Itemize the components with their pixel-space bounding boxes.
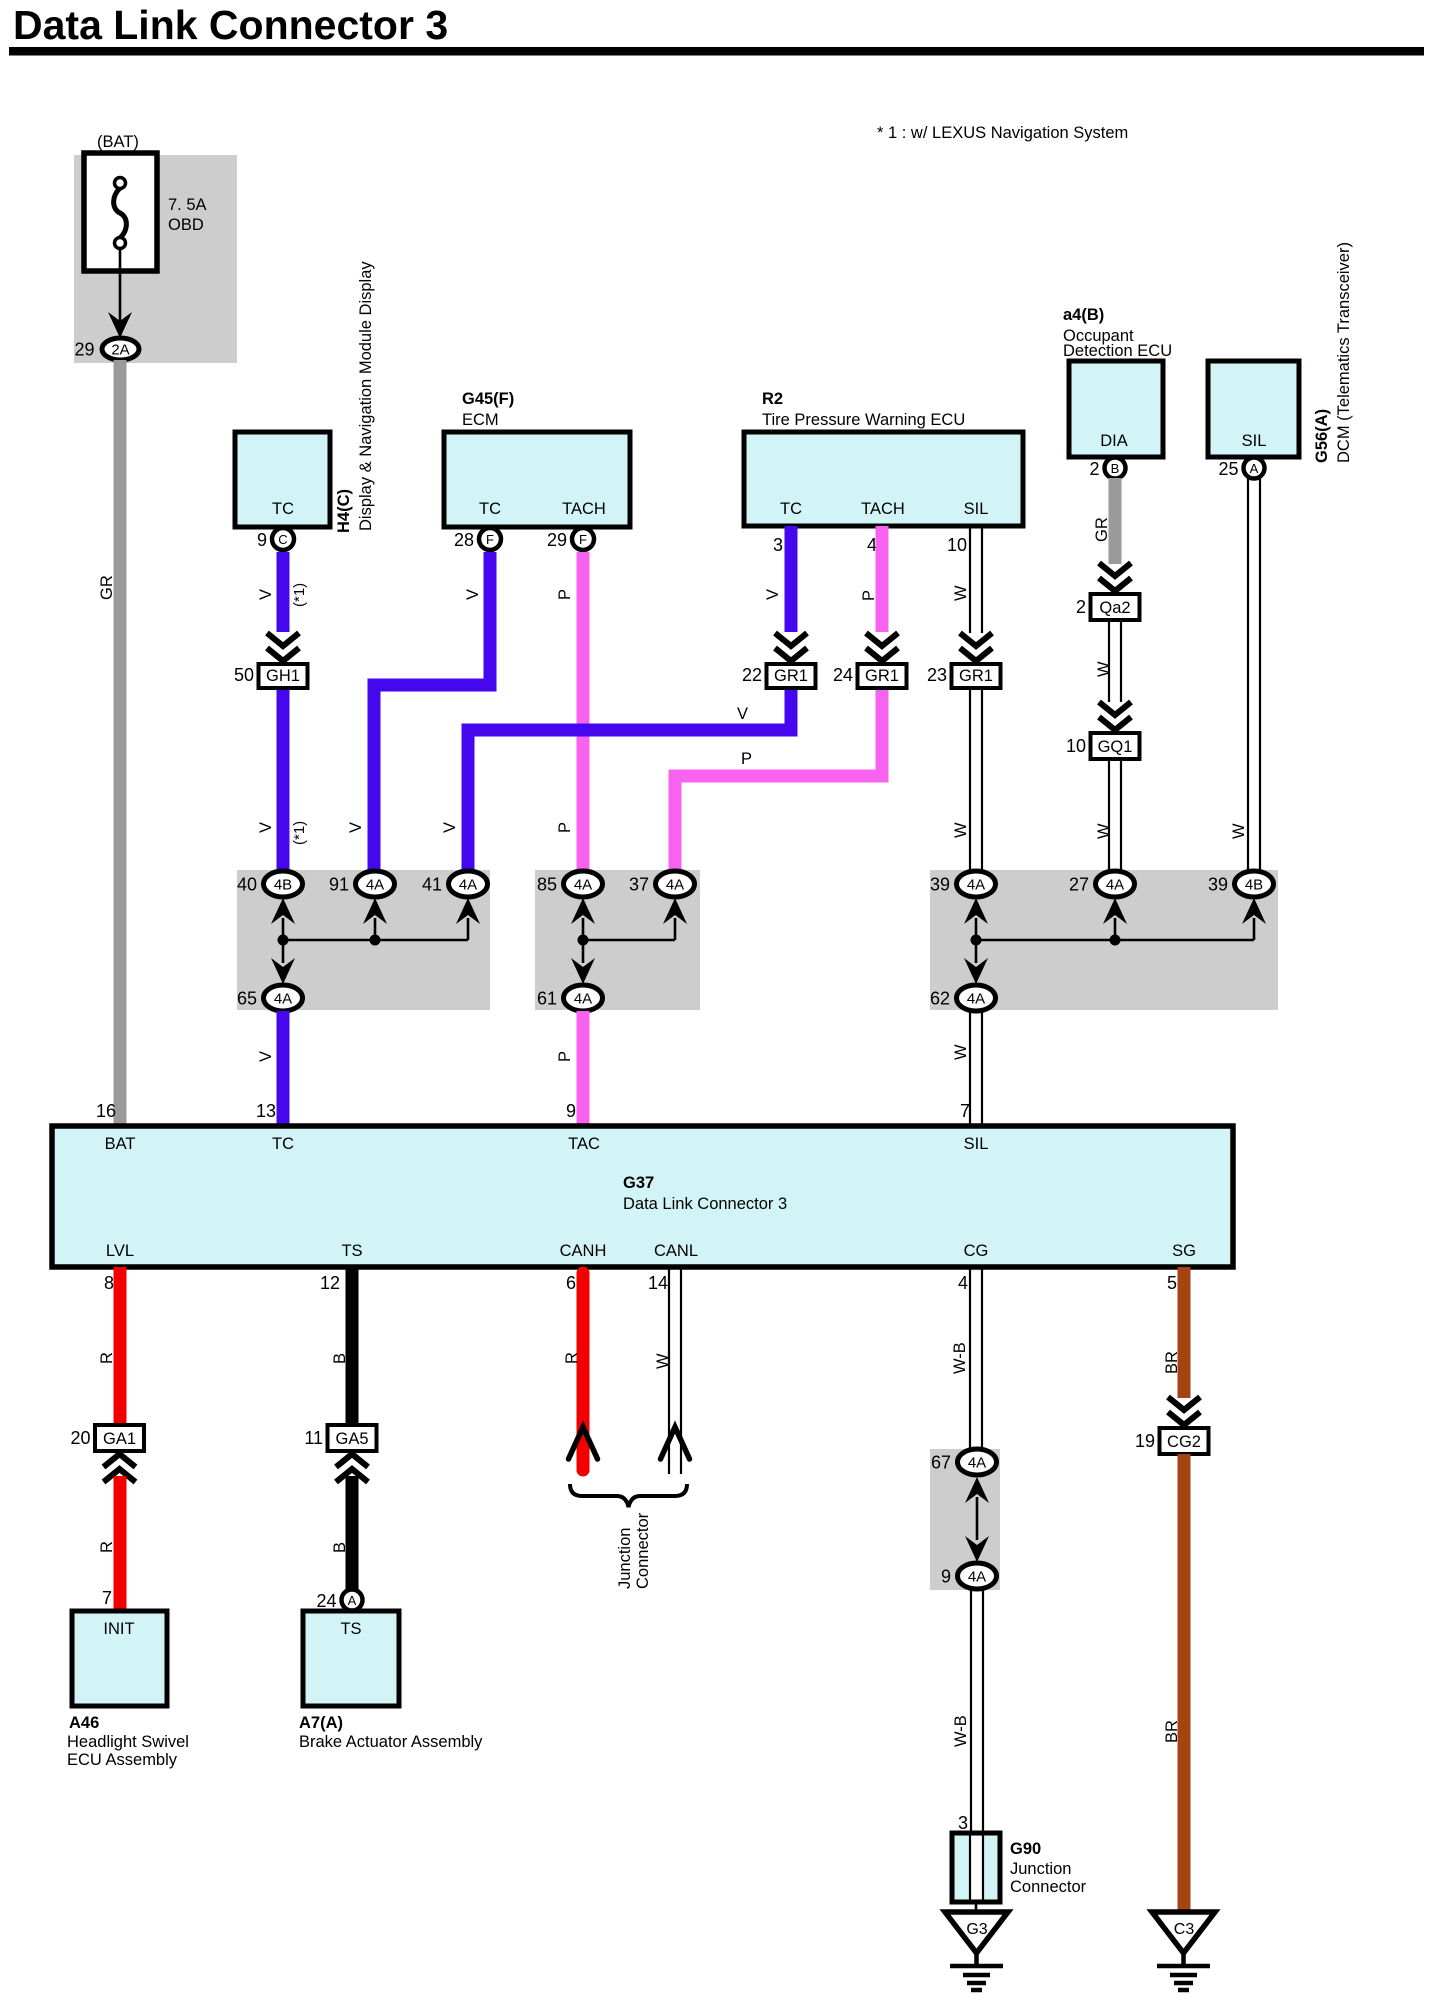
svg-text:GR: GR	[98, 575, 116, 600]
band1 internal wiring	[271, 898, 480, 984]
svg-text:4A: 4A	[1106, 877, 1124, 894]
svg-text:TACH: TACH	[562, 500, 606, 518]
svg-text:40: 40	[237, 875, 257, 895]
pin 25 A of G56	[1218, 458, 1264, 480]
svg-text:OBD: OBD	[168, 216, 204, 234]
svg-text:G45(F): G45(F)	[462, 390, 514, 408]
svg-text:V: V	[257, 822, 275, 833]
svg-text:SIL: SIL	[964, 500, 989, 518]
wire W from GQ1 to junction 27-4A	[1095, 759, 1121, 872]
connector GR1 pin 23 with chevron	[927, 633, 1001, 688]
svg-text:Connector: Connector	[1010, 1878, 1087, 1896]
svg-text:29: 29	[547, 530, 567, 550]
connector GR1 pin 24 with chevron	[833, 633, 907, 688]
connector GH1 pin 50 with chevron	[234, 633, 308, 688]
svg-text:4: 4	[958, 1273, 968, 1293]
svg-text:14: 14	[648, 1273, 668, 1293]
fuse 7.5A OBD (BAT)	[84, 133, 207, 271]
svg-text:CANL: CANL	[654, 1242, 698, 1260]
svg-text:CG2: CG2	[1167, 1433, 1201, 1451]
G37 pin 16 label	[96, 1101, 116, 1121]
wire BR from G37 SG pin 5 to CG2	[1163, 1267, 1184, 1398]
svg-text:12: 12	[320, 1273, 340, 1293]
svg-text:TACH: TACH	[861, 500, 905, 518]
ECU H4(C) Display & Navigation Module Display	[235, 261, 375, 533]
svg-text:9: 9	[257, 530, 267, 550]
svg-text:GR: GR	[1093, 517, 1111, 542]
connector GR1 pin 22 with chevron	[742, 633, 816, 688]
svg-text:3: 3	[958, 1813, 968, 1833]
svg-text:V: V	[464, 589, 482, 600]
svg-text:Junction: Junction	[616, 1528, 634, 1589]
svg-text:62: 62	[930, 989, 950, 1009]
svg-text:7: 7	[102, 1588, 112, 1608]
svg-text:P: P	[556, 1051, 574, 1062]
svg-text:C: C	[278, 532, 287, 547]
ground G3	[945, 1912, 1008, 1990]
svg-text:11: 11	[304, 1428, 323, 1448]
svg-text:G3: G3	[966, 1921, 987, 1938]
svg-text:INIT: INIT	[103, 1620, 134, 1638]
svg-text:CG: CG	[964, 1242, 989, 1260]
junction band 4 (CG)	[930, 1449, 1000, 1590]
Data Link Connector 3 G37	[52, 1126, 1233, 1267]
pin 29 F of ECM	[547, 528, 594, 550]
svg-text:Data Link Connector 3: Data Link Connector 3	[13, 2, 448, 48]
svg-text:(*1): (*1)	[291, 583, 308, 607]
junction 67-4A	[931, 1449, 997, 1475]
svg-text:13: 13	[256, 1101, 276, 1121]
svg-text:4B: 4B	[1245, 877, 1263, 894]
svg-text:V: V	[257, 589, 275, 600]
svg-text:61: 61	[537, 989, 557, 1009]
connector Qa2 pin 2 with chevron	[1076, 563, 1140, 620]
svg-text:4A: 4A	[574, 991, 592, 1008]
connector GQ1 pin 10 with chevron	[1066, 702, 1140, 759]
junction 85-4A	[537, 871, 603, 897]
svg-text:4A: 4A	[366, 877, 384, 894]
svg-text:W: W	[952, 822, 970, 838]
Occupant Detection ECU a4(B)	[1063, 306, 1172, 457]
pin 28 F of ECM	[454, 528, 501, 550]
svg-text:TS: TS	[341, 1242, 362, 1260]
svg-text:A7(A): A7(A)	[299, 1714, 343, 1732]
wire P from ECM TACH pin 29 to junction 85-4A	[556, 552, 583, 872]
svg-text:B: B	[331, 1542, 349, 1553]
svg-text:24: 24	[316, 1591, 336, 1611]
svg-text:TC: TC	[272, 1135, 294, 1153]
svg-text:Brake Actuator Assembly: Brake Actuator Assembly	[299, 1733, 483, 1751]
band3 internal wiring	[964, 898, 1266, 984]
svg-text:67: 67	[931, 1453, 951, 1473]
svg-text:22: 22	[742, 665, 762, 685]
svg-text:C3: C3	[1174, 1921, 1195, 1938]
svg-text:4A: 4A	[274, 991, 292, 1008]
svg-text:F: F	[486, 532, 494, 547]
svg-text:GA1: GA1	[103, 1430, 136, 1448]
svg-text:W: W	[1230, 823, 1248, 839]
svg-text:F: F	[579, 532, 587, 547]
svg-text:R: R	[98, 1541, 116, 1553]
connector CG2 pin 19 with chevron	[1135, 1397, 1209, 1454]
svg-text:G90: G90	[1010, 1840, 1041, 1858]
svg-text:37: 37	[629, 875, 649, 895]
svg-text:SIL: SIL	[1242, 432, 1267, 450]
svg-text:4A: 4A	[967, 991, 985, 1008]
svg-text:(BAT): (BAT)	[97, 133, 139, 151]
svg-text:65: 65	[237, 989, 257, 1009]
svg-text:2A: 2A	[111, 342, 129, 359]
wire GR from a4 DIA pin 2 to connector Qa2	[1093, 478, 1115, 564]
svg-text:TC: TC	[780, 500, 802, 518]
svg-text:W: W	[1095, 661, 1113, 677]
junction band 3 (SIL)	[930, 870, 1278, 1010]
svg-text:2: 2	[1076, 597, 1086, 617]
svg-text:6: 6	[566, 1273, 576, 1293]
svg-text:ECU Assembly: ECU Assembly	[67, 1751, 178, 1769]
svg-text:W: W	[952, 585, 970, 601]
svg-text:P: P	[556, 589, 574, 600]
svg-text:Connector: Connector	[634, 1512, 652, 1589]
wire BR from CG2 to ground C3	[1163, 1454, 1184, 1912]
junction 40-4B	[237, 871, 303, 897]
wire P from GR1-24 to junction 37-4A	[675, 690, 882, 872]
note: w/ LEXUS Navigation System	[877, 124, 1128, 142]
junction 61-4A	[537, 985, 603, 1011]
svg-text:CANH: CANH	[560, 1242, 607, 1260]
svg-text:P: P	[556, 822, 574, 833]
junction connector brace	[570, 1484, 687, 1589]
svg-text:28: 28	[454, 530, 474, 550]
band4 internal wiring	[965, 1477, 989, 1562]
wire GR (BAT to G37 pin 16)	[98, 360, 120, 1126]
wire R from G37 LVL pin 8 to GA1	[98, 1267, 120, 1425]
svg-text:P: P	[860, 590, 878, 601]
svg-text:4A: 4A	[666, 877, 684, 894]
svg-text:4A: 4A	[574, 877, 592, 894]
svg-text:4A: 4A	[967, 877, 985, 894]
pin 2 B of a4	[1089, 458, 1125, 480]
svg-text:G56(A): G56(A)	[1313, 409, 1331, 463]
svg-text:W: W	[952, 1044, 970, 1060]
svg-text:7. 5A: 7. 5A	[168, 196, 207, 214]
svg-text:4B: 4B	[274, 877, 292, 894]
svg-text:* 1 : w/ LEXUS Navigation Syst: * 1 : w/ LEXUS Navigation System	[877, 124, 1128, 142]
junction band 1 (TC)	[237, 870, 490, 1010]
wire V from ECM TC pin 28 to junction 91-4A	[347, 552, 490, 872]
svg-text:Detection ECU: Detection ECU	[1063, 342, 1172, 360]
svg-text:GH1: GH1	[266, 667, 300, 685]
connector 2A pin 29	[74, 338, 139, 360]
Junction Connector G90	[952, 1833, 1087, 1902]
svg-text:DCM (Telematics Transceiver): DCM (Telematics Transceiver)	[1335, 242, 1353, 463]
svg-text:A46: A46	[69, 1714, 99, 1732]
svg-text:Data Link Connector 3: Data Link Connector 3	[623, 1195, 787, 1213]
svg-text:5: 5	[1167, 1273, 1177, 1293]
open arrow on CANL wire	[661, 1427, 690, 1459]
svg-text:V: V	[257, 1051, 275, 1062]
svg-text:R: R	[563, 1352, 581, 1364]
svg-text:a4(B): a4(B)	[1063, 306, 1104, 324]
svg-text:Headlight Swivel: Headlight Swivel	[67, 1733, 189, 1751]
wire V from GH1-50 to junction 40-4B	[257, 690, 308, 872]
DCM (Telematics Transceiver) G56(A)	[1208, 242, 1353, 463]
svg-text:TC: TC	[272, 500, 294, 518]
svg-text:4A: 4A	[968, 1455, 986, 1472]
svg-text:Qa2: Qa2	[1099, 599, 1130, 617]
svg-text:39: 39	[1208, 875, 1228, 895]
open arrow on CANH wire	[569, 1427, 598, 1459]
pin 9 C of H4	[257, 528, 294, 550]
band2 internal wiring	[571, 898, 687, 984]
svg-text:A: A	[1250, 461, 1259, 476]
svg-text:GA5: GA5	[335, 1430, 368, 1448]
svg-text:W-B: W-B	[951, 1342, 969, 1374]
svg-text:SIL: SIL	[964, 1135, 989, 1153]
wire W from R2 SIL pin 10 to connector GR1-23	[952, 526, 982, 633]
svg-text:39: 39	[930, 875, 950, 895]
wire V from GR1-22 to junction 41-4A	[441, 690, 791, 872]
junction 27-4A	[1069, 871, 1135, 897]
svg-text:BAT: BAT	[105, 1135, 136, 1153]
wire W from Qa2 to connector GQ1	[1095, 620, 1121, 702]
wire W from G37 CANL pin 14 to junction connector	[648, 1267, 681, 1474]
junction band 2 (TAC)	[535, 870, 700, 1010]
svg-text:41: 41	[422, 875, 442, 895]
junction 62-4A	[930, 985, 996, 1011]
svg-text:3: 3	[773, 535, 783, 555]
svg-text:B: B	[1111, 461, 1120, 476]
svg-text:V: V	[737, 705, 748, 723]
junction 39-4B	[1208, 871, 1274, 897]
svg-text:9: 9	[941, 1567, 951, 1587]
junction 37-4A	[629, 871, 695, 897]
svg-text:23: 23	[927, 665, 947, 685]
svg-text:TS: TS	[340, 1620, 361, 1638]
svg-text:4: 4	[867, 535, 877, 555]
svg-text:GR1: GR1	[959, 667, 993, 685]
wire V from R2 TC pin 3 to connector GR1-22	[764, 526, 791, 632]
svg-text:V: V	[441, 822, 459, 833]
svg-text:Junction: Junction	[1010, 1860, 1071, 1878]
junction 41-4A	[422, 871, 488, 897]
svg-text:ECM: ECM	[462, 411, 499, 429]
svg-text:H4(C): H4(C)	[335, 489, 353, 533]
wire W from 62-4A to G37 SIL pin 7	[952, 1011, 982, 1126]
svg-text:25: 25	[1218, 459, 1238, 479]
svg-text:4A: 4A	[968, 1569, 986, 1586]
wire W from GR1-23 to junction 39-4A	[952, 690, 982, 872]
svg-text:W: W	[1095, 823, 1113, 839]
svg-text:P: P	[741, 750, 752, 768]
wire B from GA5 to A7 TS pin 24	[331, 1476, 352, 1589]
svg-text:50: 50	[234, 665, 254, 685]
svg-text:10: 10	[947, 535, 967, 555]
svg-text:2: 2	[1089, 459, 1099, 479]
Tire Pressure Warning ECU R2	[744, 390, 1023, 555]
svg-text:29: 29	[74, 340, 94, 360]
svg-text:7: 7	[960, 1101, 970, 1121]
wire B from G37 TS pin 12 to GA5	[320, 1267, 352, 1425]
wire R from GA1 to A46 INIT pin 7	[98, 1476, 120, 1611]
svg-text:91: 91	[329, 875, 349, 895]
svg-text:DIA: DIA	[1100, 432, 1128, 450]
wire R from G37 CANH pin 6 to junction connector	[563, 1273, 583, 1470]
svg-text:16: 16	[96, 1101, 116, 1121]
wire from G90 to ground G3	[975, 1902, 978, 1912]
wire W-B from 9-4A to G90 pin 3	[952, 1589, 983, 1833]
svg-text:LVL: LVL	[106, 1242, 134, 1260]
svg-text:W-B: W-B	[952, 1715, 970, 1747]
svg-text:8: 8	[104, 1273, 114, 1293]
svg-text:BR: BR	[1163, 1720, 1181, 1743]
svg-text:20: 20	[70, 1428, 90, 1448]
ground C3	[1152, 1912, 1215, 1990]
svg-text:19: 19	[1135, 1431, 1155, 1451]
svg-text:A: A	[348, 1593, 357, 1608]
wire from fuse to connector 2A	[108, 248, 132, 338]
svg-text:85: 85	[537, 875, 557, 895]
junction 9-4A	[941, 1563, 997, 1589]
svg-text:9: 9	[566, 1101, 576, 1121]
svg-text:TAC: TAC	[568, 1135, 600, 1153]
svg-text:GR1: GR1	[774, 667, 808, 685]
connector GA5 pin 11 with chevron	[304, 1425, 376, 1482]
junction 91-4A	[329, 871, 395, 897]
Brake Actuator Assembly A7(A)	[299, 1611, 483, 1751]
svg-text:4A: 4A	[459, 877, 477, 894]
svg-text:B: B	[331, 1353, 349, 1364]
svg-text:GQ1: GQ1	[1098, 738, 1133, 756]
svg-text:Tire Pressure Warning ECU: Tire Pressure Warning ECU	[762, 411, 965, 429]
svg-text:BR: BR	[1163, 1351, 1181, 1374]
ECM G45(F)	[444, 390, 630, 527]
wire W-B from G37 CG pin 4 to 67-4A	[951, 1267, 982, 1450]
junction 39-4A	[930, 871, 996, 897]
wire P from 61-4A to G37 TAC pin 9	[556, 1011, 583, 1126]
svg-text:(*1): (*1)	[291, 821, 308, 845]
junction 65-4A	[237, 985, 303, 1011]
svg-text:GR1: GR1	[865, 667, 899, 685]
svg-text:G37: G37	[623, 1174, 654, 1192]
svg-text:R2: R2	[762, 390, 783, 408]
svg-text:R: R	[98, 1352, 116, 1364]
wire P from R2 TACH pin 4 to connector GR1-24	[860, 526, 882, 632]
svg-text:Display & Navigation Module Di: Display & Navigation Module Display	[357, 261, 375, 531]
svg-text:10: 10	[1066, 736, 1086, 756]
wire V from H4 TC pin 9 to connector GH1-50	[257, 552, 308, 632]
pin 24 A of A7	[316, 1590, 362, 1612]
svg-text:SG: SG	[1172, 1242, 1196, 1260]
wire W from G56 SIL pin 25 to junction 39-4B	[1230, 478, 1260, 872]
svg-text:W: W	[654, 1353, 672, 1369]
title: Data Link Connector 3	[9, 2, 1424, 56]
Headlight Swivel ECU Assembly A46	[67, 1611, 189, 1769]
gray panel behind fuse	[74, 155, 237, 363]
svg-text:V: V	[347, 822, 365, 833]
svg-text:27: 27	[1069, 875, 1089, 895]
svg-text:V: V	[764, 589, 782, 600]
connector GA1 pin 20 with chevron	[70, 1425, 144, 1482]
svg-text:24: 24	[833, 665, 853, 685]
wire V from 65-4A to G37 TC pin 13	[256, 1011, 283, 1126]
svg-text:TC: TC	[479, 500, 501, 518]
